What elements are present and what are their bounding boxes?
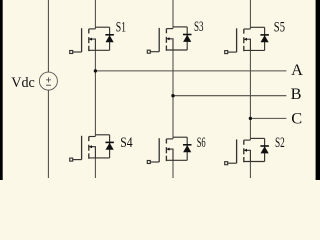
svg-text:S2: S2 — [275, 135, 285, 151]
svg-text:C: C — [291, 108, 302, 127]
wire line C — [250, 117, 286, 119]
plus-minus — [46, 77, 51, 85]
svg-text:S1: S1 — [116, 19, 126, 35]
svg-text:S3: S3 — [194, 19, 204, 35]
wire left bus — [47, 0, 49, 178]
wire leg2 vertical — [172, 0, 174, 178]
transistor S3 — [147, 27, 191, 53]
wire line A — [95, 70, 286, 72]
svg-text:A: A — [291, 60, 303, 79]
right frame bar — [316, 0, 320, 180]
svg-text:S6: S6 — [197, 135, 206, 151]
transistor S4 — [70, 135, 114, 161]
transistor S2 — [225, 138, 269, 164]
svg-text:S4: S4 — [120, 135, 132, 151]
source Vdc circle — [39, 72, 57, 90]
node B junction dot — [171, 94, 174, 97]
svg-text:Vdc: Vdc — [11, 75, 35, 91]
transistor S1 — [70, 27, 114, 53]
node A junction dot — [94, 69, 97, 72]
node C junction dot — [249, 117, 252, 120]
svg-text:S5: S5 — [274, 20, 285, 36]
transistor S6 — [147, 137, 191, 163]
wire leg1 vertical — [94, 0, 96, 178]
transistor S5 — [225, 27, 269, 53]
left frame bar — [0, 0, 3, 180]
wire line B — [173, 95, 286, 97]
svg-text:B: B — [291, 84, 302, 103]
wire leg3 vertical — [249, 0, 251, 178]
